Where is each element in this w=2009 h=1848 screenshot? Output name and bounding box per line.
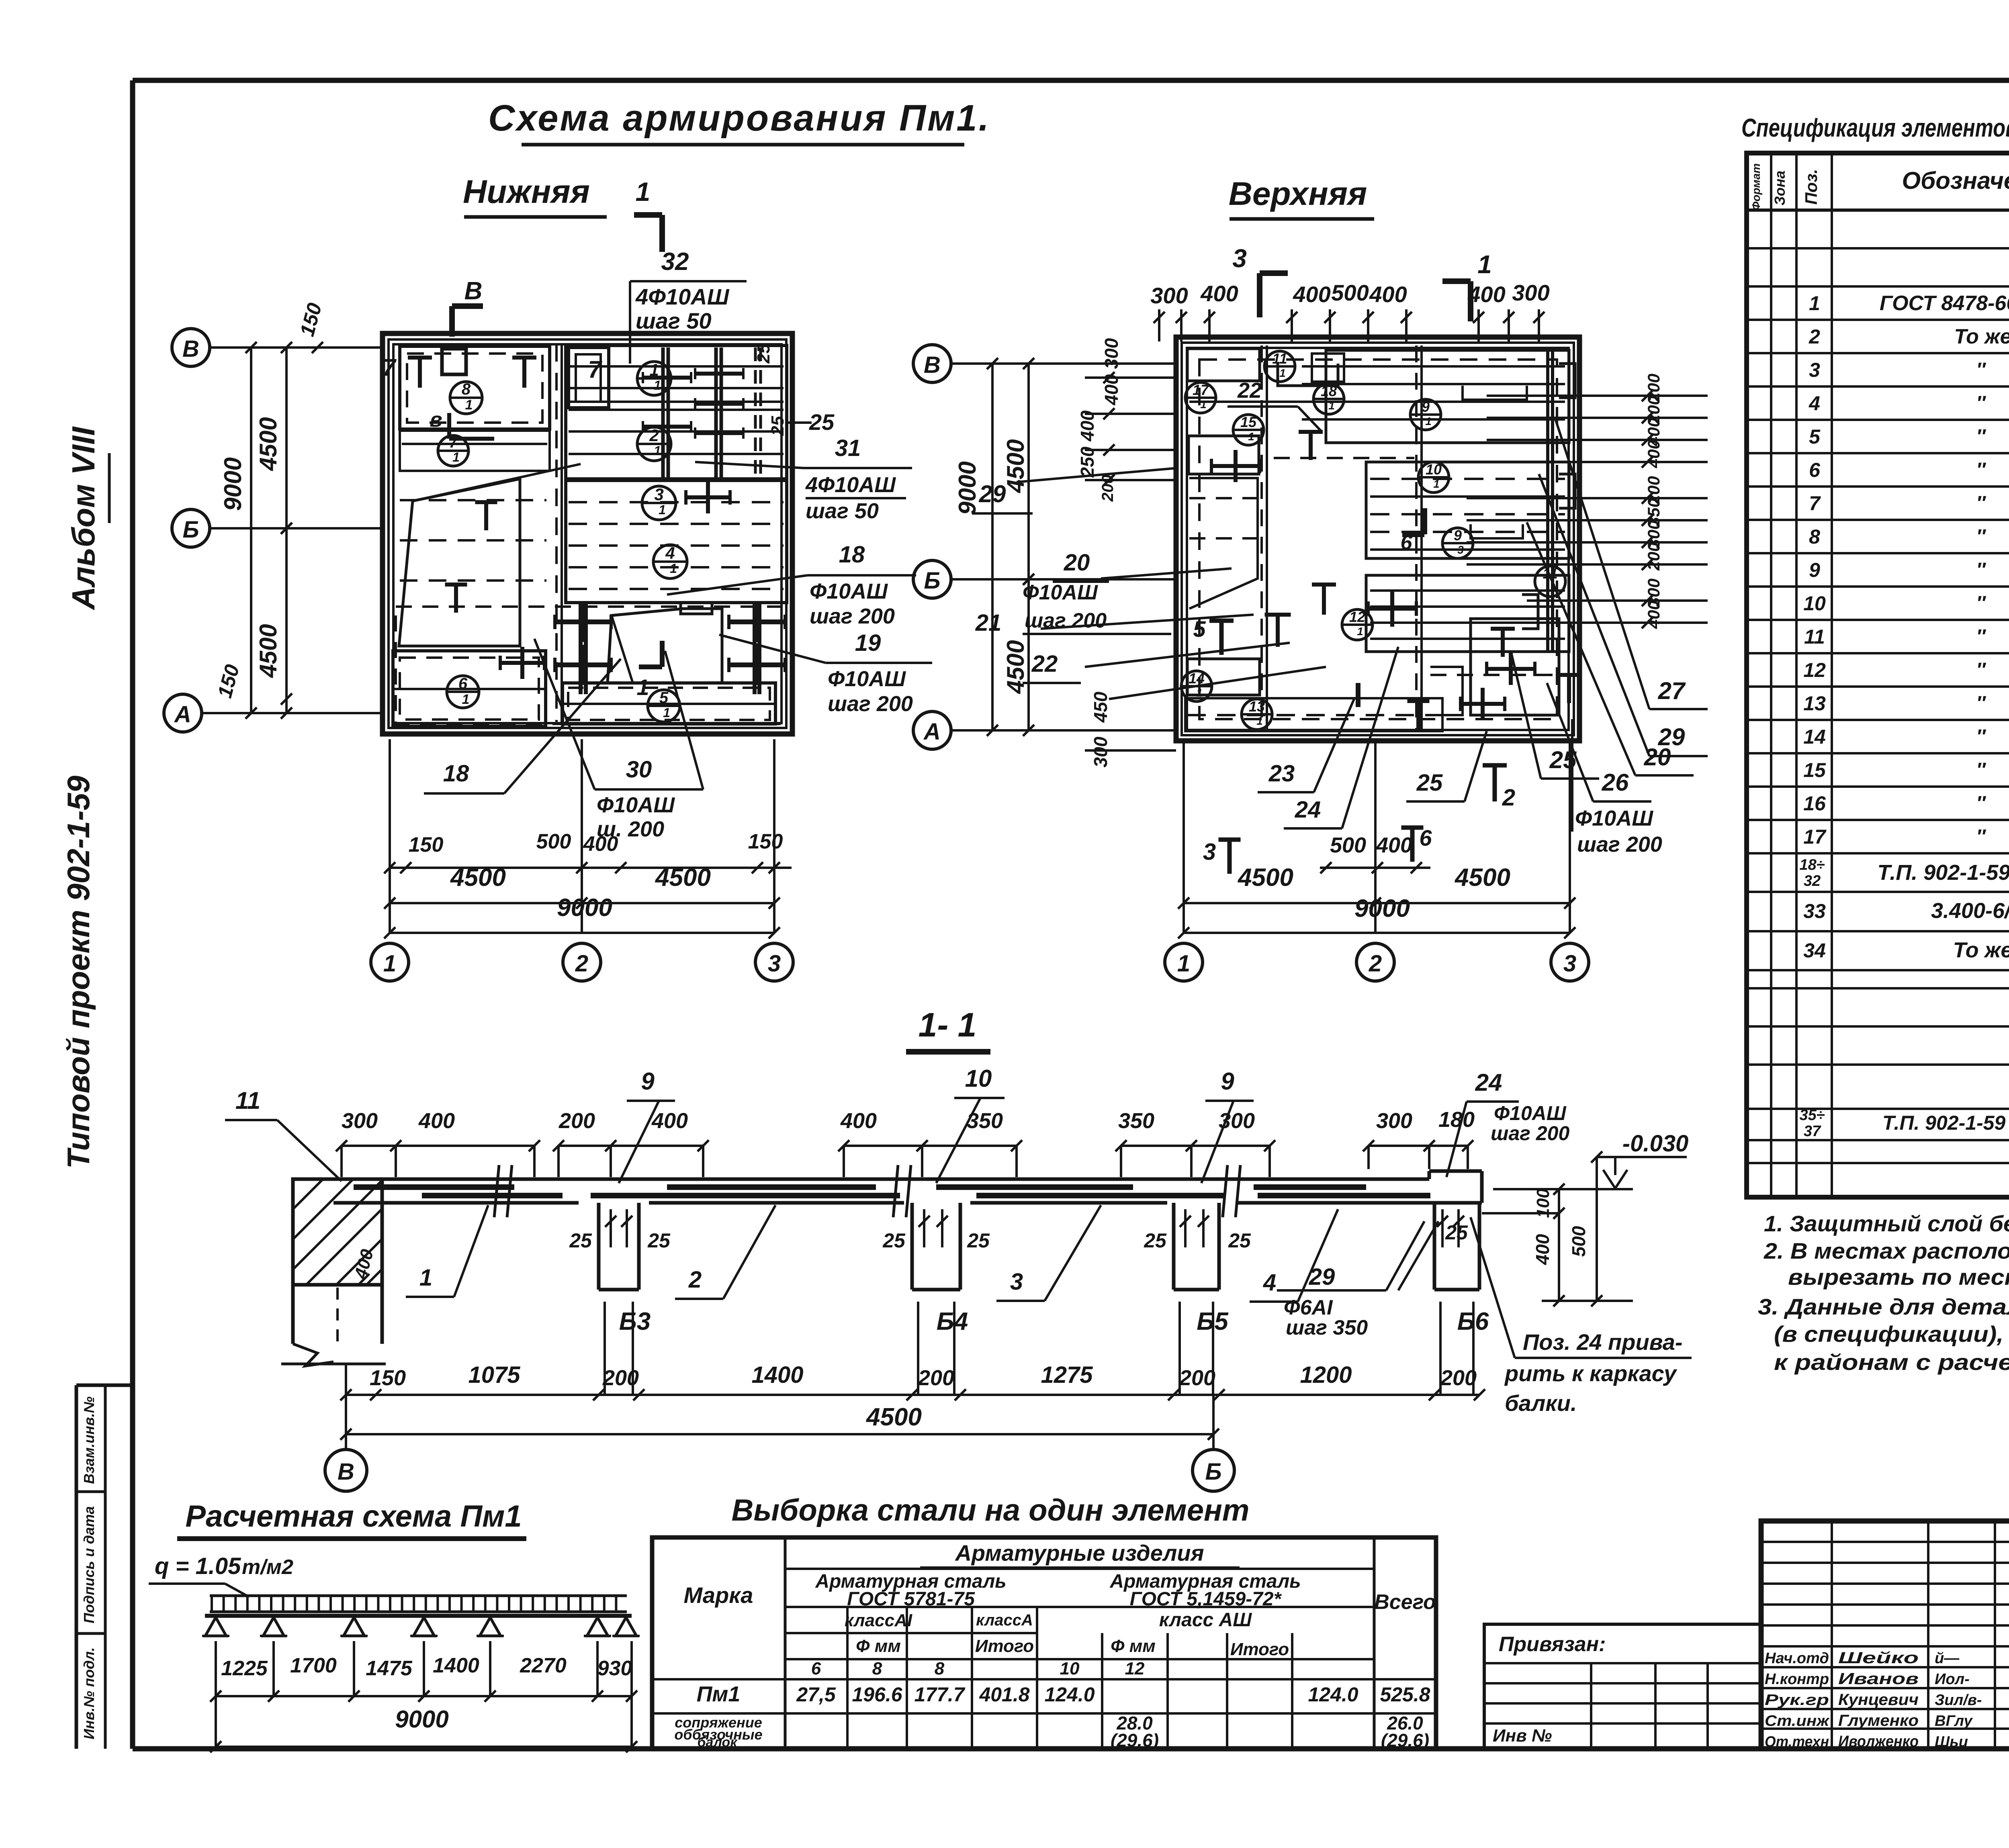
svg-text:6: 6 (1419, 825, 1432, 850)
svg-text:8: 8 (1809, 525, 1820, 548)
svg-text:7: 7 (1809, 492, 1821, 515)
svg-text:5: 5 (659, 689, 669, 707)
vertical bar pair A (661, 348, 665, 479)
svg-text:То же: То же (1953, 938, 2009, 962)
svg-text:500: 500 (1331, 280, 1369, 305)
svg-text:9: 9 (1422, 399, 1430, 415)
svg-text:33: 33 (1803, 900, 1826, 922)
svg-text:″: ″ (1976, 793, 1986, 814)
svg-text:″: ″ (1976, 526, 1986, 547)
svg-text:150: 150 (370, 1366, 406, 1390)
svg-text:24: 24 (1475, 1069, 1502, 1096)
section mark В left top (449, 306, 455, 337)
svg-text:177.7: 177.7 (914, 1683, 965, 1706)
svg-text:Ст.инж: Ст.инж (1765, 1713, 1830, 1729)
upper plan inner dashed border (1199, 360, 1557, 719)
circled 12 (1342, 609, 1373, 640)
wall break squiggle (293, 1344, 333, 1366)
svg-text:Инв.№ подл.: Инв.№ подл. (81, 1647, 97, 1739)
svg-text:-0.030: -0.030 (1622, 1130, 1688, 1157)
svg-text:9000: 9000 (954, 461, 981, 515)
circled mark 7/1 (438, 435, 468, 466)
svg-text:″: ″ (1976, 826, 1986, 847)
svg-text:(в спецификации), заключенные: (в спецификации), заключенные в скобках,… (1774, 1321, 2009, 1347)
circled 10 (1418, 462, 1449, 493)
right edge brackets (1559, 364, 1575, 398)
right vertical dims 100 400 500 (1558, 1189, 1560, 1301)
svg-text:к районам с расчетной зимней: к районам с расчетной зимней температуро… (1774, 1349, 2009, 1375)
svg-text:(29,6): (29,6) (1111, 1730, 1159, 1751)
cluster B bracket (1471, 524, 1523, 538)
extra rebar symbols lower plan (475, 500, 497, 504)
left stamp column boxes (76, 1384, 133, 1387)
svg-text:1: 1 (1256, 715, 1263, 727)
svg-text:ГОСТ 5,1459-72*: ГОСТ 5,1459-72* (1130, 1588, 1282, 1610)
svg-text:2: 2 (1369, 951, 1382, 977)
svg-text:1: 1 (452, 450, 460, 464)
svg-text:500: 500 (1568, 1226, 1589, 1257)
beam line (205, 1614, 632, 1618)
svg-text:196.6: 196.6 (852, 1683, 902, 1706)
svg-text:17: 17 (1803, 826, 1827, 848)
svg-text:шаг 50: шаг 50 (806, 499, 879, 523)
svg-text:1: 1 (1177, 951, 1190, 977)
notch detail (681, 603, 712, 614)
svg-text:рить к каркасу: рить к каркасу (1504, 1361, 1678, 1386)
svg-text:ГОСТ 8478-66 КЖ-15: ГОСТ 8478-66 КЖ-15 (1880, 292, 2009, 315)
svg-text:класс АШ: класс АШ (1159, 1609, 1252, 1631)
svg-text:300: 300 (1512, 280, 1549, 305)
svg-text:29: 29 (1309, 1264, 1335, 1290)
circled mark 3/1 (642, 486, 676, 520)
svg-text:1225: 1225 (221, 1657, 268, 1680)
svg-text:1: 1 (1279, 367, 1286, 379)
top dim droppers (1158, 309, 1160, 341)
svg-text:10: 10 (965, 1065, 992, 1092)
svg-text:30: 30 (626, 756, 652, 783)
svg-text:1: 1 (419, 1265, 432, 1291)
axis circle Б section (1193, 1449, 1234, 1491)
svg-text:4Ф10АШ: 4Ф10АШ (805, 473, 896, 497)
svg-text:Формат: Формат (1750, 164, 1762, 211)
circled mark 5/1 (648, 690, 680, 722)
svg-text:Подпись и дата: Подпись и дата (81, 1506, 97, 1623)
svg-text:11: 11 (1272, 350, 1287, 367)
svg-text:Привязан:: Привязан: (1499, 1633, 1606, 1656)
svg-text:2: 2 (649, 426, 659, 445)
svg-text:400: 400 (1532, 1234, 1553, 1265)
svg-text:Типовой проект 902-1-59: Типовой проект 902-1-59 (61, 775, 96, 1169)
svg-text:25: 25 (1228, 1229, 1251, 1252)
mid room strips (569, 501, 784, 503)
svg-text:1700: 1700 (290, 1654, 337, 1677)
svg-text:400: 400 (651, 1109, 688, 1133)
svg-text:Обозначение: Обозначение (1902, 167, 2009, 194)
svg-text:124.0: 124.0 (1308, 1683, 1358, 1706)
wall axis drop line (345, 1364, 347, 1449)
lower plan right hall upper room (566, 345, 787, 479)
svg-text:19: 19 (855, 630, 881, 656)
section slab bottom line (333, 1201, 579, 1205)
svg-text:1475: 1475 (366, 1657, 413, 1680)
bottom vertical bars with crosses (579, 603, 583, 694)
svg-text:Рук.гр: Рук.гр (1765, 1692, 1829, 1709)
svg-text:18: 18 (839, 542, 865, 568)
section wall lower block (291, 1285, 295, 1344)
svg-text:37: 37 (1804, 1123, 1821, 1140)
circled 9 cluster A (1410, 399, 1441, 430)
svg-text:300: 300 (1101, 338, 1122, 369)
svg-text:400: 400 (583, 832, 618, 856)
svg-text:4: 4 (665, 544, 675, 562)
left vertical dimension 4500 lower (285, 528, 288, 713)
svg-text:31: 31 (835, 435, 861, 461)
svg-text:Т.П. 902-1-59 -КЖ-15: Т.П. 902-1-59 -КЖ-15 (1877, 861, 2009, 885)
lower plan bottom opening polygon (608, 609, 722, 683)
svg-text:1: 1 (1200, 398, 1207, 411)
svg-text:200: 200 (1440, 1366, 1477, 1390)
svg-text:12: 12 (1803, 659, 1826, 681)
svg-text:25: 25 (809, 409, 835, 435)
svg-text:Кунцевич: Кунцевич (1838, 1691, 1919, 1709)
inner dashed border lower plan (396, 607, 782, 724)
circled 15 (1233, 415, 1264, 445)
svg-text:От.техн: От.техн (1765, 1734, 1829, 1750)
svg-text:400: 400 (1644, 601, 1663, 629)
svg-text:400: 400 (840, 1109, 877, 1133)
svg-text:3. Данные для детали сопряже: 3. Данные для детали сопряжения оббязочн… (1758, 1294, 2009, 1319)
svg-text:Ф10АШ: Ф10АШ (810, 579, 888, 603)
svg-text:500: 500 (1330, 833, 1366, 857)
svg-text:Иол-: Иол- (1935, 1671, 1970, 1688)
slab rebar thick dashes bottom level (422, 1193, 563, 1198)
svg-text:3: 3 (1809, 359, 1820, 381)
upper plan right strip cluster A (1326, 350, 1569, 443)
svg-text:35÷: 35÷ (1799, 1107, 1825, 1124)
svg-text:т/м2: т/м2 (242, 1556, 293, 1579)
svg-text:13: 13 (1803, 692, 1826, 715)
sheet border frame (133, 78, 2009, 83)
svg-text:Шейко: Шейко (1838, 1649, 1919, 1667)
circled mark 4/1 (653, 545, 687, 579)
slab rebar thick dashes top level (354, 1184, 514, 1190)
svg-text:″: ″ (1976, 659, 1986, 681)
svg-text:В: В (464, 277, 483, 305)
specification table row rules (1747, 247, 2009, 249)
svg-text:21: 21 (975, 610, 1002, 636)
title block left grid rows (1761, 1541, 2009, 1543)
svg-text:2: 2 (1809, 325, 1820, 348)
svg-text:(29.6): (29.6) (1381, 1730, 1429, 1751)
svg-text:Арматурные изделия: Арматурные изделия (954, 1540, 1204, 1566)
lower plan bottom-left room (393, 651, 546, 726)
svg-text:4500: 4500 (655, 864, 711, 891)
svg-text:400: 400 (1369, 282, 1407, 307)
svg-text:3: 3 (654, 485, 663, 504)
cluster A brackets (1463, 386, 1527, 400)
svg-text:В: В (924, 352, 941, 378)
svg-text:3: 3 (1232, 244, 1247, 273)
svg-text:18÷: 18÷ (1799, 857, 1825, 873)
svg-text:930: 930 (597, 1657, 632, 1680)
svg-text:Альбом VIII: Альбом VIII (65, 426, 101, 611)
svg-text:400: 400 (418, 1109, 455, 1133)
svg-text:10: 10 (1060, 1659, 1080, 1678)
upper-left bracket detail (1278, 364, 1338, 386)
привязан table box (1484, 1624, 1761, 1749)
svg-text:″: ″ (1976, 493, 1986, 514)
svg-text:24: 24 (1295, 797, 1321, 823)
svg-text:4500: 4500 (450, 864, 506, 891)
svg-text:Нижняя: Нижняя (463, 174, 590, 210)
svg-text:2270: 2270 (520, 1654, 567, 1677)
svg-text:200: 200 (1179, 1366, 1215, 1390)
svg-text:То же: То же (1954, 325, 2009, 348)
steel table verticals (784, 1537, 787, 1749)
svg-text:q = 1.05: q = 1.05 (155, 1553, 241, 1579)
svg-text:Б4: Б4 (937, 1308, 968, 1335)
svg-text:4500: 4500 (1237, 864, 1293, 891)
svg-text:шаг 350: шаг 350 (1286, 1316, 1368, 1339)
svg-text:Ф мм: Ф мм (1111, 1636, 1156, 1656)
svg-text:1: 1 (465, 397, 473, 413)
circled mark 8/1 (450, 382, 482, 414)
upper plan bottom strip (1185, 698, 1442, 731)
svg-text:Спецификация элементов монолит: Спецификация элементов монолитной констр… (1741, 113, 2009, 142)
section beams (597, 1203, 601, 1290)
svg-text:150: 150 (748, 830, 783, 853)
circled mark 1/1 (637, 362, 671, 395)
svg-text:1: 1 (1248, 430, 1254, 443)
beam supports (205, 1617, 226, 1636)
svg-text:300: 300 (1376, 1109, 1412, 1133)
svg-text:20: 20 (1644, 744, 1671, 771)
svg-text:А: А (923, 719, 941, 745)
svg-text:7: 7 (449, 434, 458, 451)
steel table horizontals (785, 1568, 1374, 1570)
svg-text:200: 200 (1099, 475, 1117, 502)
right edge vertical bars upper plan (1546, 350, 1549, 651)
svg-text:34: 34 (1803, 939, 1826, 962)
svg-text:6: 6 (811, 1659, 821, 1678)
svg-text:Иволженко: Иволженко (1838, 1733, 1919, 1750)
svg-text:32: 32 (1804, 873, 1821, 889)
svg-text:11: 11 (1804, 626, 1825, 648)
upper plan right strip cluster B (1366, 462, 1569, 558)
plan Нижняя outer wall (383, 333, 792, 734)
svg-text:200: 200 (1644, 542, 1663, 571)
svg-text:3: 3 (1203, 839, 1216, 865)
svg-text:Зил/в-: Зил/в- (1935, 1692, 1982, 1709)
svg-text:300: 300 (342, 1109, 378, 1133)
title block outer (1761, 1521, 2009, 1749)
svg-text:Итого: Итого (1230, 1639, 1289, 1659)
svg-text:Б3: Б3 (619, 1308, 651, 1335)
axis drop lines lower plan (389, 739, 391, 933)
rebar symbols upper-left (1299, 430, 1323, 434)
section mark 1 above lower plan (659, 215, 665, 252)
svg-text:3.400-6/76: 3.400-6/76 (1931, 899, 2009, 923)
axis circle А upper (913, 711, 951, 749)
svg-text:9000: 9000 (1354, 895, 1410, 922)
svg-text:Б: Б (182, 517, 199, 543)
svg-text:300: 300 (1090, 736, 1111, 767)
svg-text:4Ф10АШ: 4Ф10АШ (635, 284, 730, 309)
svg-text:18: 18 (1321, 383, 1337, 399)
svg-text:Ф10АШ: Ф10АШ (1494, 1102, 1567, 1124)
extra dashed lines upper plan (1189, 497, 1258, 499)
upper plan leader lines left labels (1017, 468, 1177, 482)
svg-text:Ф10АШ: Ф10АШ (828, 667, 906, 691)
svg-text:Верхняя: Верхняя (1229, 176, 1367, 212)
svg-text:500: 500 (536, 830, 571, 853)
svg-text:350: 350 (1118, 1109, 1154, 1133)
svg-text:10: 10 (1803, 592, 1826, 615)
svg-text:9000: 9000 (395, 1706, 448, 1733)
upper plan mid-left polygon (1189, 478, 1258, 609)
svg-text:8: 8 (872, 1659, 882, 1678)
svg-text:Поз.: Поз. (1802, 169, 1821, 205)
circled 11 right (1535, 566, 1565, 597)
svg-text:400: 400 (1644, 440, 1663, 468)
calc scheme dim chain (216, 1695, 632, 1697)
axis circle 1 upper (1165, 943, 1203, 981)
circled 14 (1181, 671, 1212, 701)
svg-text:4500: 4500 (1002, 640, 1029, 694)
lower plan trapezoid opening (399, 479, 520, 646)
svg-text:401.8: 401.8 (979, 1683, 1029, 1706)
axis circle 2 lower (563, 943, 601, 981)
svg-text:1: 1 (1477, 250, 1492, 279)
svg-text:6: 6 (458, 675, 468, 693)
svg-text:1: 1 (383, 951, 396, 977)
svg-text:й—: й— (1935, 1650, 1960, 1667)
axis circle В section (325, 1449, 367, 1491)
svg-text:шаг 200: шаг 200 (810, 604, 895, 628)
svg-text:12: 12 (1349, 609, 1365, 625)
svg-text:15: 15 (1240, 414, 1257, 430)
svg-text:3: 3 (768, 951, 781, 977)
axis circle Б lower (172, 509, 210, 547)
section slab top line (333, 1177, 1429, 1181)
svg-text:Пм1: Пм1 (697, 1682, 741, 1706)
svg-text:Зона: Зона (1772, 171, 1788, 206)
svg-text:″: ″ (1976, 593, 1986, 614)
svg-text:1. Защитный слой бетона для ра: 1. Защитный слой бетона для рабочей арма… (1764, 1211, 2009, 1236)
svg-text:22: 22 (1237, 378, 1262, 403)
svg-text:шаг 200: шаг 200 (828, 692, 913, 716)
distributed load comb (210, 1595, 627, 1597)
svg-text:шаг 200: шаг 200 (1025, 609, 1107, 632)
circled 11 upper plan (1264, 351, 1295, 382)
svg-text:″: ″ (1976, 559, 1986, 581)
svg-text:13: 13 (1249, 698, 1265, 715)
svg-text:″: ″ (1976, 626, 1986, 647)
svg-text:Нач.отд: Нач.отд (1765, 1650, 1829, 1667)
svg-text:Б: Б (1205, 1459, 1221, 1485)
svg-text:1400: 1400 (751, 1362, 803, 1388)
svg-text:″: ″ (1976, 392, 1986, 414)
svg-text:9000: 9000 (557, 894, 612, 922)
svg-text:17: 17 (1193, 382, 1209, 398)
circled 17 (1185, 382, 1216, 413)
svg-text:25: 25 (647, 1229, 671, 1252)
svg-text:400: 400 (1467, 282, 1505, 307)
upper plan bottom-mid room (1471, 619, 1559, 715)
svg-text:Схема армирования Пм1.: Схема армирования Пм1. (488, 98, 990, 139)
svg-text:В: В (338, 1459, 354, 1485)
corridor dashed lines (555, 344, 558, 723)
svg-text:26: 26 (1602, 769, 1629, 796)
specification table column lines (1770, 153, 1772, 1197)
axis circle 2 upper (1356, 943, 1394, 981)
svg-text:5: 5 (1809, 425, 1821, 448)
svg-text:25: 25 (1144, 1229, 1167, 1252)
svg-text:Всего: Всего (1374, 1590, 1436, 1614)
cross ties on bar B (695, 372, 743, 376)
steel table outer (652, 1537, 1436, 1749)
upper plan left vertical dim 4500s (1027, 364, 1030, 579)
svg-text:1: 1 (1809, 292, 1820, 315)
svg-text:8: 8 (935, 1659, 945, 1678)
svg-text:Глуменко: Глуменко (1838, 1712, 1919, 1729)
svg-text:шаг 200: шаг 200 (1491, 1122, 1569, 1145)
svg-text:4: 4 (1263, 1269, 1276, 1296)
flag 3 bottom left (1219, 838, 1241, 842)
svg-text:1400: 1400 (433, 1654, 479, 1677)
svg-text:3: 3 (1563, 951, 1576, 977)
section flag 3 top (1257, 273, 1262, 317)
room divider line (402, 428, 547, 430)
svg-text:3: 3 (1010, 1269, 1023, 1295)
rebar cluster center (1265, 613, 1291, 617)
svg-text:″: ″ (1976, 459, 1986, 480)
svg-text:1: 1 (649, 360, 659, 379)
section left wall hatched (293, 1179, 382, 1285)
svg-text:300: 300 (1219, 1109, 1255, 1133)
svg-text:Ф10АШ: Ф10АШ (1023, 581, 1098, 604)
small window detail (569, 348, 609, 408)
svg-text:2: 2 (575, 951, 588, 977)
circled mark 2/1 (637, 427, 671, 461)
vertical bar pair B (714, 348, 718, 479)
flag 6 bottom (1401, 826, 1424, 830)
flag 2 bottom (1483, 763, 1507, 768)
svg-text:1: 1 (636, 177, 651, 206)
svg-text:ВГлу: ВГлу (1935, 1713, 1973, 1729)
right edge tie marks 25 (754, 348, 757, 479)
svg-text:9: 9 (1809, 559, 1820, 581)
svg-text:400: 400 (1376, 833, 1412, 857)
svg-text:шаг 200: шаг 200 (1577, 832, 1662, 857)
svg-text:2: 2 (688, 1267, 702, 1293)
svg-text:8: 8 (462, 380, 471, 398)
svg-text:25: 25 (1416, 770, 1443, 796)
lower plan right hall mid room (566, 480, 787, 603)
plan Верхняя outer wall (1176, 337, 1579, 741)
svg-text:1- 1: 1- 1 (919, 1006, 977, 1044)
svg-text:22: 22 (1031, 651, 1058, 677)
svg-text:Расчетная схема Пм1: Расчетная схема Пм1 (185, 1499, 522, 1533)
svg-text:1: 1 (1357, 625, 1363, 638)
small opening square (442, 349, 466, 374)
svg-text:1: 1 (1425, 415, 1432, 427)
axis circle Б upper (913, 560, 951, 598)
specification table header row (1747, 209, 2009, 212)
svg-text:15: 15 (1803, 759, 1826, 781)
svg-text:4500: 4500 (1002, 439, 1029, 493)
svg-text:″: ″ (1976, 726, 1986, 747)
